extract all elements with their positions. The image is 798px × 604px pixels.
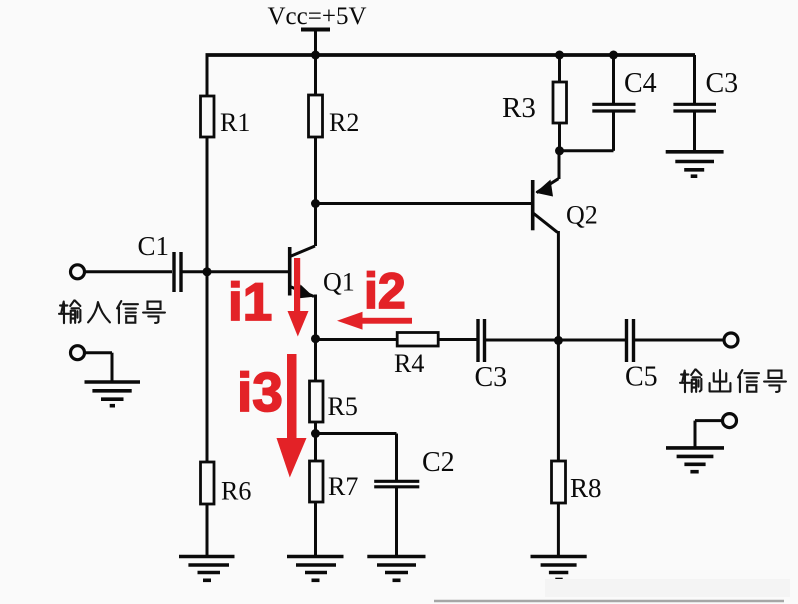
- svg-text:R1: R1: [220, 108, 250, 137]
- input ground terminal: [71, 346, 113, 381]
- node R5/R7/C2: [311, 429, 320, 438]
- svg-text:C1: C1: [138, 231, 170, 261]
- svg-text:R6: R6: [221, 477, 251, 506]
- power rail Vcc: [206, 30, 696, 60]
- capacitor C1: [84, 231, 288, 292]
- transistor Q1: [290, 246, 355, 339]
- svg-text:Q2: Q2: [566, 201, 598, 230]
- svg-text:R8: R8: [570, 473, 602, 503]
- ground (R7): [287, 557, 344, 581]
- node rail/C4: [609, 51, 618, 60]
- svg-text:R5: R5: [328, 392, 358, 421]
- resistor R7: [310, 434, 359, 557]
- svg-text:R3: R3: [502, 92, 536, 124]
- input terminal: [71, 265, 85, 279]
- svg-text:C3: C3: [706, 68, 739, 99]
- output ground terminal: [695, 414, 737, 447]
- node C1/R1: [203, 267, 212, 276]
- resistor R3: [502, 55, 567, 151]
- current arrow i2: [337, 263, 412, 330]
- capacitor C2: [374, 447, 454, 556]
- capacitor C3 (bypass, top right): [673, 55, 738, 150]
- current arrow i3: [237, 354, 307, 478]
- node collector Q2 / C3 / C5 / R8: [554, 336, 563, 345]
- output terminal: [724, 333, 738, 347]
- svg-text:i1: i1: [228, 273, 272, 332]
- ground (input): [85, 382, 141, 406]
- resistor R6: [201, 462, 252, 506]
- resistor R4: [394, 333, 438, 379]
- svg-text:C4: C4: [624, 68, 657, 99]
- wire R2 branch: [314, 55, 317, 246]
- capacitor C3 (coupling): [475, 319, 508, 393]
- wire R4 to C3: [438, 338, 477, 341]
- wire base Q2: [316, 202, 532, 205]
- wire node to C5: [558, 339, 626, 342]
- capacitor C5: [625, 319, 725, 393]
- resistor R1: [201, 96, 251, 137]
- wire C3 to collector node Q2: [486, 339, 558, 342]
- resistor R8: [552, 340, 602, 556]
- svg-text:Q1: Q1: [323, 268, 355, 297]
- wire emitter node to R4: [316, 338, 399, 341]
- wire node to C2: [316, 434, 397, 481]
- node rail/R3: [555, 51, 564, 60]
- svg-text:C3: C3: [475, 362, 508, 393]
- svg-text:R7: R7: [328, 472, 358, 501]
- node emitter Q1 / R4 / R5: [311, 334, 320, 343]
- ground (output): [666, 448, 724, 472]
- node collector Q1 / base Q2: [311, 199, 320, 208]
- label 输入信号 (input signal): [59, 301, 165, 324]
- label 输出信号 (output signal): [680, 370, 786, 393]
- current arrow i1: [228, 258, 309, 337]
- watermark strip: [434, 579, 790, 601]
- svg-text:C5: C5: [625, 362, 658, 393]
- ground (R8): [531, 557, 587, 580]
- svg-text:i3: i3: [237, 361, 283, 423]
- node R3/C4: [555, 146, 564, 155]
- svg-text:Vcc=+5V: Vcc=+5V: [268, 3, 367, 30]
- capacitor C4: [560, 55, 657, 151]
- wire R1 branch: [206, 55, 209, 556]
- svg-text:R4: R4: [394, 349, 424, 378]
- transistor Q2: [533, 151, 598, 341]
- ground (C2): [367, 557, 425, 581]
- svg-text:i2: i2: [364, 263, 406, 319]
- resistor R5: [310, 339, 358, 434]
- ground (C3 top right): [666, 152, 724, 176]
- ground (R6): [179, 557, 235, 581]
- resistor R2: [309, 95, 360, 137]
- svg-text:R2: R2: [329, 108, 359, 137]
- svg-text:C2: C2: [422, 447, 455, 478]
